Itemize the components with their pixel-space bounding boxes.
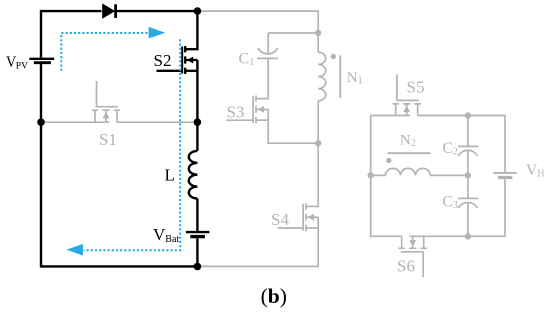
svg-text:PV: PV — [16, 61, 28, 71]
wire: gray top rail from black node to transformer branch — [197, 11, 318, 52]
wire: C1 branch horizontal — [268, 32, 318, 34]
core bar N1 — [339, 55, 341, 98]
svg-text:L: L — [165, 166, 175, 185]
battery VBat — [186, 232, 210, 237]
core bar N2 — [388, 152, 431, 154]
wire: C3 top lead — [467, 175, 469, 198]
polarity dot N1 — [331, 54, 336, 59]
wire: gray S1 branch rail right part — [117, 121, 197, 123]
transistor S4 — [278, 203, 319, 231]
svg-text:S5: S5 — [407, 77, 425, 96]
transistor S6 — [399, 236, 427, 277]
wire: black vertical from node down to inductor — [196, 122, 198, 151]
svg-text:S1: S1 — [99, 130, 117, 149]
node: middle junction C2/C3/N2 — [465, 172, 471, 178]
wire: dashed current loop upper segment with arrow — [61, 33, 148, 71]
wire: S3 source lead to node — [268, 109, 318, 143]
capacitor C3 — [458, 198, 478, 208]
svg-text:C2: C2 — [443, 140, 458, 158]
winding N2 — [371, 168, 468, 175]
node: top rail junction with C2 — [465, 112, 471, 118]
transistor S2 — [157, 46, 198, 74]
wire: N1 bottom to node — [317, 101, 319, 144]
wire: S2 source lead down to node at y=121.5 — [196, 60, 198, 122]
wire: C3 bottom lead to bottom rail — [467, 203, 469, 236]
node: gray junction below N1 — [315, 140, 321, 146]
wire: battery VBat to bottom node — [196, 238, 198, 266]
transistor S3 — [226, 95, 268, 123]
svg-text:N2: N2 — [400, 133, 416, 150]
wire: node down to S4 drain — [306, 143, 318, 206]
polarity dot N2 — [386, 158, 391, 163]
wire: right cell top rail right part — [418, 116, 505, 172]
node: bottom rail junction with C3 — [465, 233, 471, 239]
svg-text:(b): (b) — [261, 284, 287, 308]
diode D1 — [103, 4, 116, 18]
node: left rail junction with S1 branch — [37, 118, 45, 126]
wire: dashed current loop right/bottom segment with arrow — [84, 39, 181, 250]
wire: black left rail bottom segment (V_PV negative terminal down to bottom-left corner) — [41, 64, 197, 267]
svg-text:C3: C3 — [443, 194, 458, 212]
battery VH — [493, 173, 517, 178]
wire: S2 drain lead from top node — [185, 11, 197, 49]
node: gray junction C1 branch top — [315, 30, 321, 36]
capacitor C1 — [257, 48, 278, 58]
svg-text:VH: VH — [526, 162, 544, 180]
node: N2 left junction — [368, 172, 374, 178]
node: bottom junction — [194, 263, 202, 271]
transistor S1 — [92, 81, 120, 122]
wire: C1 bottom lead to S3 drain — [256, 58, 268, 98]
wire: S4 source down and gray bottom rail to black node — [197, 217, 318, 266]
svg-text:VBat: VBat — [153, 225, 179, 245]
wire: C2 top lead — [467, 116, 469, 147]
svg-text:C1: C1 — [239, 51, 255, 69]
svg-text:S6: S6 — [397, 256, 415, 275]
wire: black left rail top segment (V_PV top terminal up to top-left corner and across top) — [41, 11, 102, 58]
inductor L — [189, 151, 198, 199]
svg-text:S3: S3 — [227, 102, 245, 121]
wire: top rail from diode cathode to node at x=197 — [116, 10, 198, 12]
capacitor C2 — [458, 146, 478, 156]
wire: gray S1 branch rail left part — [41, 121, 109, 123]
svg-text:S2: S2 — [154, 51, 172, 70]
wire: right cell top rail left part, left rail and bottom rail left part — [371, 116, 410, 237]
winding N1 — [318, 52, 326, 100]
wire: C1 top lead — [267, 33, 269, 54]
svg-text:S4: S4 — [271, 210, 289, 229]
wire: inductor to battery VBat — [196, 199, 198, 231]
battery VPV — [29, 59, 54, 63]
wire: right cell right rail bottom part — [409, 179, 505, 236]
node: S2 source junction with S1 branch — [194, 118, 202, 126]
wire: C2 bottom lead to middle node — [467, 151, 469, 175]
transistor S5 — [393, 75, 421, 116]
svg-text:N1: N1 — [347, 70, 363, 87]
node: top junction at diode output — [194, 7, 202, 15]
